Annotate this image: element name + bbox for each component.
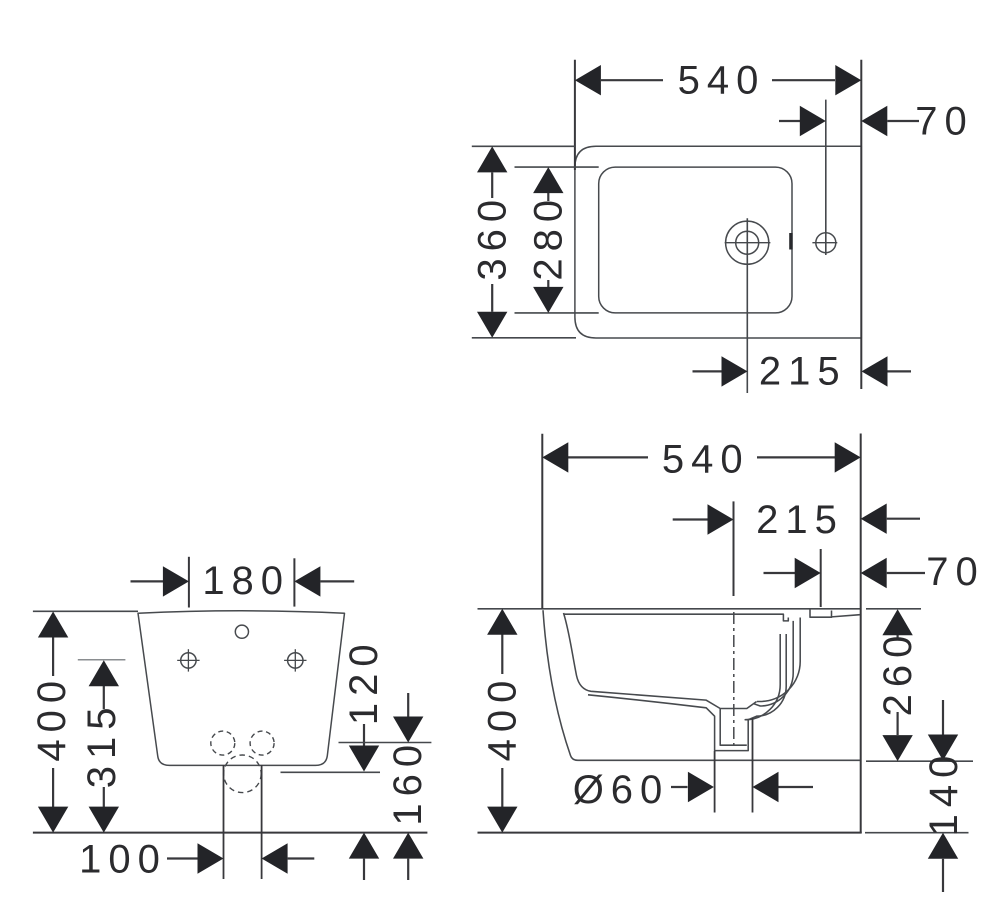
dim 215 (side) extension at drain centerline <box>733 501 735 596</box>
svg-text:215: 215 <box>759 349 847 393</box>
left mounting hole <box>181 653 196 668</box>
body front face profile <box>543 610 860 760</box>
dim 215 (top) tail left <box>693 370 723 372</box>
svg-text:215: 215 <box>756 498 844 542</box>
overflow slot mark <box>789 233 792 250</box>
top surface reference line <box>478 608 861 610</box>
top center hole <box>235 625 248 638</box>
dim 70 (top) arrow at wall <box>861 106 887 136</box>
tap hole inner circle <box>736 231 759 254</box>
svg-text:140: 140 <box>922 749 966 837</box>
dim 540 (top) arrow left <box>575 65 601 95</box>
floor line (side view) <box>478 832 862 834</box>
dim 360 line <box>491 172 493 198</box>
dim 280 arrow bottom <box>533 287 563 313</box>
dim 280 extension top <box>515 166 599 168</box>
dim 215 (side) arrow at wall <box>861 504 887 534</box>
svg-text:540: 540 <box>662 438 750 482</box>
svg-text:70: 70 <box>915 100 974 144</box>
dim d60 extension lines <box>714 751 716 813</box>
fixing hole circle <box>816 233 836 253</box>
dim 180 right arrow+tail <box>294 566 320 596</box>
tap hole vertical centerline / extension to 215 <box>746 218 748 393</box>
svg-text:70: 70 <box>926 550 985 594</box>
bowl underside / drain cup <box>588 695 757 751</box>
dim 120 extension at waste center <box>281 771 381 773</box>
dim 540 (side) arrows <box>542 442 568 472</box>
dim 215 (top) arrow at tap line <box>722 356 748 386</box>
dim 540 (top) line <box>601 79 663 81</box>
dim 360 arrow top <box>477 146 507 172</box>
dim 160 extension at side connections <box>339 742 432 744</box>
dim 280 arrow top <box>533 167 563 193</box>
dim 360 arrow bottom <box>477 312 507 338</box>
bowl interior profile <box>564 613 757 709</box>
dim 215 (side) tail+arrow <box>673 518 709 520</box>
dim 100 left tail+arrow <box>167 857 198 859</box>
dim 540 (top) extension line left <box>574 60 576 170</box>
fixing hole vertical extension line <box>825 100 827 255</box>
dim 280 line <box>547 193 549 202</box>
dim 400 (side) line + arrows <box>501 635 503 675</box>
rear ledge slope <box>832 615 861 617</box>
svg-text:360: 360 <box>471 193 515 281</box>
top rear recess <box>810 610 832 618</box>
dim 160 down arrow <box>407 693 409 717</box>
waste outlet (dashed circle) <box>224 755 262 793</box>
dim 360 extension top <box>472 145 575 147</box>
dim 100 right arrow+tail <box>262 843 288 873</box>
dim 70 (top) arrow onto hole line <box>779 120 801 122</box>
dim 120 down arrow <box>363 724 365 748</box>
dim 315 line + arrows <box>103 686 105 710</box>
rim inner edge line <box>564 614 789 621</box>
svg-text:160: 160 <box>386 738 430 826</box>
svg-text:400: 400 <box>30 674 74 762</box>
dim 280 extension bottom <box>515 312 599 314</box>
bidet body outline (plan) <box>575 146 861 338</box>
wall line <box>860 434 862 834</box>
outlet channel curve d <box>745 634 780 720</box>
tap hole horizontal centerline <box>725 242 771 244</box>
dim 180 extension lines <box>188 557 190 608</box>
bidet body outline (rear view trapezoid) <box>138 611 345 766</box>
tap hole outer circle <box>726 221 769 264</box>
dim 400 extension top <box>33 610 138 612</box>
dim 540 (top) extension line right / wall edge <box>860 60 862 389</box>
dim 120 up arrow from floor <box>349 833 379 859</box>
dim 140 up arrow <box>928 833 958 859</box>
dim 400 line + arrows <box>52 637 54 676</box>
svg-text:180: 180 <box>202 559 290 603</box>
dim 260 bottom extension <box>866 760 973 762</box>
dim 540 (side) line <box>568 456 648 458</box>
dim 360 extension bottom <box>472 337 576 339</box>
outlet channel curve c <box>756 634 786 716</box>
top reference extension right <box>866 608 921 610</box>
right mounting hole <box>288 653 303 668</box>
fixing hole horizontal centerline <box>812 242 837 244</box>
svg-text:Ø60: Ø60 <box>573 768 670 812</box>
svg-text:315: 315 <box>80 701 124 789</box>
drain centerline <box>733 612 735 745</box>
drain cup inner wall <box>720 709 747 746</box>
dim 180 left tail+arrow <box>131 580 165 582</box>
left water connection (dashed circle) <box>211 731 235 755</box>
dim 70 (side) extension line <box>820 549 822 607</box>
outlet channel curve b <box>754 621 793 706</box>
right water connection (dashed circle) <box>250 731 274 755</box>
svg-text:540: 540 <box>678 59 766 103</box>
outlet channel curve a <box>757 618 800 702</box>
dim 100 extension lines <box>223 765 225 879</box>
svg-text:400: 400 <box>481 674 525 762</box>
svg-text:260: 260 <box>876 629 920 717</box>
dim d60 tail+arrow left <box>671 786 688 788</box>
dim d60 arrow right+tail <box>753 772 779 802</box>
svg-text:280: 280 <box>527 193 571 281</box>
dim 260 line + arrows <box>896 635 898 640</box>
dim 540 (top) arrow right <box>835 65 861 95</box>
dim 160 up arrow from floor <box>393 833 423 859</box>
dim 215 (top) arrow at wall <box>862 356 888 386</box>
dim 540 (side) extension left <box>541 434 543 609</box>
dim 315 extension at mounting holes <box>78 659 126 661</box>
bowl rim (plan) <box>599 167 792 313</box>
dim 70 (side) arrow at wall <box>861 558 887 588</box>
dim 70 (side) tail+arrow <box>764 572 797 574</box>
dim 140 bottom extension <box>865 832 969 834</box>
floor line (front view) <box>33 832 428 834</box>
svg-text:100: 100 <box>79 838 167 882</box>
svg-text:120: 120 <box>342 637 386 725</box>
dim 140 down arrow <box>942 700 944 735</box>
